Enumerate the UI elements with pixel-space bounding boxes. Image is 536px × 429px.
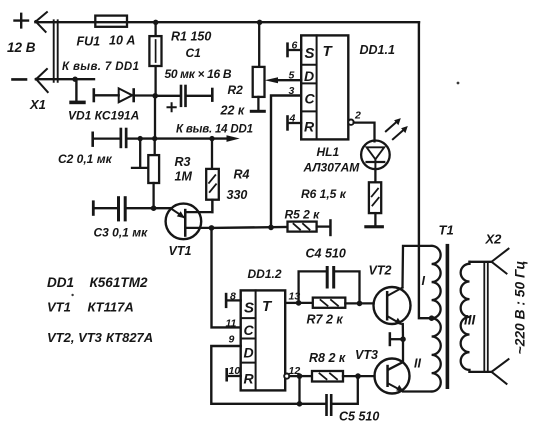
pin 13 output [285, 291, 300, 303]
capacitor C4 parallel loop [299, 266, 360, 303]
label VT1 [169, 244, 192, 258]
svg-text:R3: R3 [175, 155, 191, 169]
svg-text:VT1: VT1 [169, 244, 192, 258]
svg-text:~220 В : 50 Гц: ~220 В : 50 Гц [513, 261, 528, 355]
svg-text:К выв. 7 DD1: К выв. 7 DD1 [62, 61, 139, 73]
node fuse-R1 junction [153, 20, 158, 25]
svg-text:VT1: VT1 [47, 300, 71, 315]
connector X2 top pin [492, 249, 509, 274]
svg-text:Т1: Т1 [439, 223, 454, 238]
svg-text:D: D [244, 345, 254, 361]
svg-text:22 к: 22 к [220, 104, 245, 118]
label K vyv.14 DD1 [176, 124, 253, 136]
svg-text:DD1.1: DD1.1 [360, 43, 395, 57]
svg-text:9: 9 [229, 334, 235, 346]
label HL1 AL307AM [303, 145, 361, 175]
svg-text:С1: С1 [186, 46, 202, 60]
wire VT3 emitter to winding II [403, 390, 432, 392]
wire Vdd line with arrow to pin 14 [140, 135, 240, 142]
svg-text:R7 2 к: R7 2 к [307, 313, 344, 327]
label T1 [439, 223, 454, 238]
label VT2 [369, 264, 392, 278]
label R8 2k [309, 351, 346, 365]
wire VT2 collector to winding I [403, 246, 432, 288]
parts list line DD1 [47, 275, 148, 290]
label FU1 10A [77, 34, 136, 49]
pin 2 inverted output [348, 110, 374, 142]
label 12 V [7, 40, 36, 55]
resistor R4 [206, 139, 219, 213]
svg-text:С4 510: С4 510 [306, 247, 346, 261]
label R3 1M [175, 155, 193, 184]
svg-text:III: III [464, 313, 476, 328]
pin 6 S input to common [286, 40, 301, 58]
svg-text:DD1: DD1 [47, 275, 74, 290]
label minus [13, 78, 27, 81]
label C3 0,1mk [94, 226, 149, 240]
wire midpoint down to VT3 collector [388, 339, 403, 370]
resistor R3 [148, 139, 159, 209]
svg-text:VT2: VT2 [369, 264, 392, 278]
svg-text:VT2, VT3: VT2, VT3 [47, 330, 103, 345]
label 50mk x 16V [165, 67, 232, 81]
fuse FU1 [95, 16, 127, 27]
node pin12-R8-C5 junction [297, 373, 303, 379]
resistor R5 [288, 219, 332, 236]
node clock line junction [268, 225, 274, 231]
resistor R6 [364, 169, 384, 228]
node C3-R3-VT1 junction [151, 205, 157, 211]
wire +12V top rail [35, 21, 419, 23]
transformer T1 winding III [461, 262, 470, 372]
svg-text:R1 150: R1 150 [171, 30, 211, 44]
connector X1 minus pin [36, 69, 48, 92]
label K vyv.7 DD1 [62, 61, 139, 73]
svg-text:C: C [244, 322, 255, 338]
svg-text:D: D [304, 68, 314, 84]
node VD1-R1-C1 junction [152, 93, 158, 99]
capacitor C3 [92, 196, 154, 221]
svg-text:КТ827А: КТ827А [106, 330, 153, 345]
node minus junction [72, 77, 77, 82]
svg-text:С2 0,1 мк: С2 0,1 мк [58, 152, 113, 166]
svg-text:X1: X1 [29, 97, 46, 112]
pin 10 R input to common [225, 365, 240, 382]
connector X1 plus pin [35, 12, 47, 32]
svg-text:2: 2 [354, 110, 361, 122]
svg-text:С3 0,1 мк: С3 0,1 мк [94, 226, 149, 240]
svg-text:10: 10 [229, 365, 241, 377]
svg-text:К561ТМ2: К561ТМ2 [90, 275, 148, 290]
capacitor C5 parallel loop [300, 376, 358, 416]
transistor VT2 [374, 287, 411, 325]
resistor R1 [149, 22, 161, 96]
led light arrows [386, 118, 408, 139]
label VD1 KS191A [68, 109, 139, 123]
label winding II [414, 357, 421, 371]
svg-text:5: 5 [289, 70, 295, 82]
zener diode VD1 [93, 88, 156, 102]
label DD1.2 [248, 267, 282, 281]
svg-text:VD1 КС191А: VD1 КС191А [68, 109, 139, 123]
svg-text:HL1: HL1 [317, 145, 340, 159]
transistor VT3 [375, 359, 410, 394]
svg-text:330: 330 [227, 188, 248, 202]
capacitor C2 [91, 128, 140, 149]
pin 5 D input wiper arrow [265, 70, 302, 84]
led HL1 [361, 141, 390, 170]
node R8-C5-VT3 junction [355, 373, 361, 379]
label R2 22k [220, 83, 245, 118]
svg-text:R5 2 к: R5 2 к [285, 208, 321, 222]
svg-text:R: R [304, 119, 315, 135]
pin 12 inverted output [284, 365, 300, 379]
wire secondary bottom to X2 [470, 371, 492, 373]
svg-text:S: S [305, 45, 315, 62]
svg-text:R: R [244, 371, 255, 387]
svg-text:R4: R4 [234, 168, 250, 182]
capacitor C1 [155, 85, 213, 112]
wire zener node down to Vdd wire [154, 96, 156, 139]
wire base1 down to DD1.2 pin 11 [212, 228, 241, 328]
connector X2 bottom pin [492, 359, 509, 384]
svg-text:DD1.2: DD1.2 [248, 267, 282, 281]
label R1 150 [171, 30, 211, 44]
label R4 330 [227, 168, 250, 203]
pin 8 S input to common [225, 291, 241, 309]
label C1 [186, 46, 202, 60]
svg-text:R8 2 к: R8 2 к [309, 351, 346, 365]
label VT3 [355, 348, 378, 362]
wire secondary top to X2 [470, 261, 492, 263]
pin 9 D input feedback [211, 334, 299, 404]
svg-text:1М: 1М [175, 170, 193, 184]
svg-text:II: II [414, 357, 421, 371]
connector X2 separation lines [484, 264, 488, 372]
label plus [15, 14, 29, 28]
transformer T1 winding II [432, 318, 441, 391]
wire minus rail [36, 78, 94, 80]
label C5 510 [339, 410, 379, 424]
label R5 2k [285, 208, 321, 222]
parts list line VT1 [47, 300, 134, 315]
svg-text:10 А: 10 А [109, 34, 135, 48]
svg-text:К выв. 14 DD1: К выв. 14 DD1 [176, 124, 253, 136]
ic DD1.1 flip-flop [301, 35, 348, 139]
label R7 2k [307, 313, 344, 327]
svg-text:4: 4 [289, 113, 296, 125]
svg-text:12 В: 12 В [7, 40, 36, 55]
parts list line VT2 VT3 [47, 330, 153, 345]
label DD1.1 [360, 43, 395, 57]
node center tap junction [429, 315, 435, 321]
label X1 [29, 97, 46, 112]
wire base1 to R5 [212, 226, 288, 229]
svg-text:X2: X2 [485, 232, 503, 247]
label winding III [464, 313, 476, 328]
ground common symbol [69, 79, 85, 104]
transformer T1 winding I [432, 246, 441, 318]
wire junction up to DD1.1 pin 3 [271, 96, 301, 228]
svg-text:АЛ307АМ: АЛ307АМ [303, 161, 361, 175]
pin 4 R input to common [286, 113, 301, 131]
node bottom feedback junction [297, 401, 303, 407]
node midpoint junction to common [389, 332, 406, 346]
svg-text:С5 510: С5 510 [339, 410, 379, 424]
pin 11 C input [226, 318, 237, 330]
svg-text:C: C [305, 91, 316, 107]
svg-text:I: I [422, 274, 426, 288]
svg-text:FU1: FU1 [77, 35, 101, 49]
svg-text:6: 6 [292, 40, 298, 52]
svg-text:R2: R2 [228, 83, 244, 97]
label X2 [485, 232, 503, 247]
wire tap stub to R3 [132, 139, 148, 168]
label R6 1,5k [301, 187, 347, 201]
node pin13-R7-C4 junction [296, 300, 302, 306]
connector X1 separation lines [54, 20, 58, 82]
speck [71, 82, 459, 297]
svg-text:3: 3 [289, 85, 295, 97]
svg-text:VT3: VT3 [355, 348, 378, 362]
svg-text:11: 11 [226, 318, 237, 330]
transistor VT1 unijunction [166, 200, 213, 239]
wire VT2 emitter to midpoint [402, 324, 405, 339]
node Vdd-R3 junction [152, 136, 157, 141]
label winding I [422, 274, 426, 288]
svg-text:R6 1,5 к: R6 1,5 к [301, 187, 347, 201]
node R7-C4-VT2 junction [357, 301, 363, 307]
label 220V 50Hz rotated [513, 261, 528, 355]
svg-text:8: 8 [230, 291, 236, 303]
resistor R8 [300, 371, 375, 382]
svg-text:S: S [244, 300, 254, 317]
node Vdd-R4 junction [209, 136, 214, 141]
svg-text:КТ117А: КТ117А [88, 300, 134, 315]
label C4 510 [306, 247, 346, 261]
wire right rail to transformer center tap [419, 22, 432, 318]
svg-text:50 мк × 16 В: 50 мк × 16 В [165, 67, 232, 81]
transformer T1 core [446, 244, 450, 389]
wire to VT1 emitter [154, 207, 171, 209]
node VT1 base1 junction [209, 225, 215, 231]
trimmer R2 [250, 20, 266, 113]
node Vdd-C2 junction [138, 136, 143, 141]
label C2 0,1mk [58, 152, 113, 166]
resistor R7 [299, 298, 374, 308]
ic DD1.2 flip-flop [241, 290, 286, 390]
pin 3 C input [289, 85, 295, 97]
